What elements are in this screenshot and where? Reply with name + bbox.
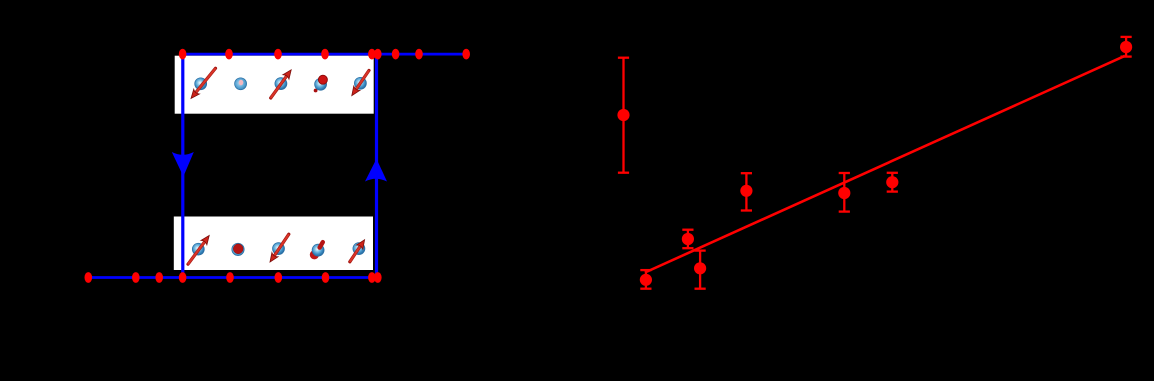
marker P8 (1120, 41, 1132, 53)
right vertical line (375, 54, 378, 277)
atom B3 spin down-left (270, 234, 289, 262)
atom A3 spin up-right (271, 70, 292, 98)
atom A2 spin out-of-plane (toward viewer) (235, 78, 247, 90)
top white band (175, 56, 374, 114)
marker P3 (682, 233, 694, 245)
marker P7 (886, 176, 898, 188)
down arrowhead on left vertical (172, 152, 194, 177)
atom A4 spin mostly out-of-plane tilted (314, 75, 328, 92)
point P8 errorbar (1125, 37, 1127, 57)
atom A1 spin down-left (191, 68, 216, 98)
bottom white band (174, 217, 373, 271)
point P3 errorbar (687, 230, 689, 249)
left vertical line (181, 54, 184, 277)
up arrowhead on right vertical (365, 159, 387, 182)
point P4 errorbar (699, 251, 701, 289)
marker P2 (640, 274, 652, 286)
marker P5 (740, 185, 752, 197)
point P6 errorbar (843, 173, 845, 212)
point P5 errorbar (745, 173, 747, 210)
marker P4 (694, 262, 706, 274)
data markers (617, 41, 1132, 286)
point P2 errorbar (645, 270, 647, 289)
atom B2 spin into page (red disc) (232, 243, 244, 255)
blue loop lines (88, 54, 467, 277)
top line dots (179, 49, 187, 60)
bottom branch line (88, 276, 377, 279)
marker P1 (617, 109, 629, 121)
red data dots on loop (ellipses) (85, 49, 471, 283)
bottom line dots (85, 272, 93, 283)
point P1 errorbar (622, 58, 624, 173)
atom A5 spin down-left short (352, 70, 369, 95)
top branch line (183, 53, 467, 56)
point P7 errorbar (891, 173, 893, 192)
atom B4 spin mostly out-of-plane up stub (310, 242, 324, 259)
atom B5 spin up-right short (350, 240, 365, 262)
atom B1 spin up-right (188, 236, 209, 265)
error bars (618, 37, 1132, 289)
fit line (645, 56, 1125, 273)
marker P6 (838, 187, 850, 199)
